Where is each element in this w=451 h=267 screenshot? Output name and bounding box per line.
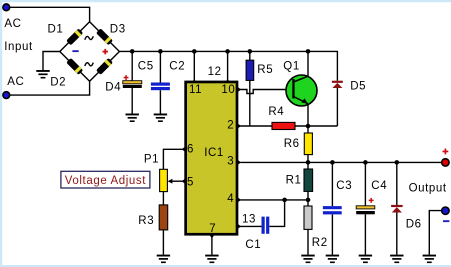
svg-text:2: 2 xyxy=(227,119,234,131)
svg-text:10: 10 xyxy=(221,84,235,96)
svg-text:IC1: IC1 xyxy=(204,147,224,159)
svg-text:R6: R6 xyxy=(284,138,300,150)
svg-text:D2: D2 xyxy=(50,77,66,89)
svg-text:R1: R1 xyxy=(286,175,302,187)
svg-text:13: 13 xyxy=(242,213,256,225)
svg-text:C4: C4 xyxy=(371,180,387,192)
svg-text:C1: C1 xyxy=(245,239,261,251)
svg-text:4: 4 xyxy=(227,193,234,205)
svg-text:D3: D3 xyxy=(110,23,126,35)
svg-text:Output: Output xyxy=(409,183,447,195)
svg-text:AC: AC xyxy=(4,18,21,30)
svg-text:7: 7 xyxy=(209,223,216,235)
svg-text:D4: D4 xyxy=(105,82,121,94)
svg-text:11: 11 xyxy=(189,84,202,96)
svg-text:3: 3 xyxy=(227,155,234,167)
svg-text:C3: C3 xyxy=(336,180,352,192)
svg-text:R3: R3 xyxy=(138,215,154,227)
svg-text:Q1: Q1 xyxy=(283,61,300,73)
svg-text:R4: R4 xyxy=(268,106,284,118)
svg-text:C5: C5 xyxy=(138,61,154,73)
svg-text:AC: AC xyxy=(7,76,24,88)
svg-text:R5: R5 xyxy=(257,64,273,76)
svg-text:12: 12 xyxy=(208,66,222,78)
svg-text:D1: D1 xyxy=(48,23,64,35)
svg-text:R2: R2 xyxy=(312,237,328,249)
svg-text:D5: D5 xyxy=(350,81,366,93)
svg-text:C2: C2 xyxy=(169,61,185,73)
svg-text:6: 6 xyxy=(187,143,194,155)
svg-text:Input: Input xyxy=(4,41,33,53)
svg-text:Voltage Adjust: Voltage Adjust xyxy=(65,175,146,187)
svg-text:5: 5 xyxy=(187,176,194,188)
svg-text:D6: D6 xyxy=(406,218,422,230)
svg-text:P1: P1 xyxy=(144,153,159,165)
